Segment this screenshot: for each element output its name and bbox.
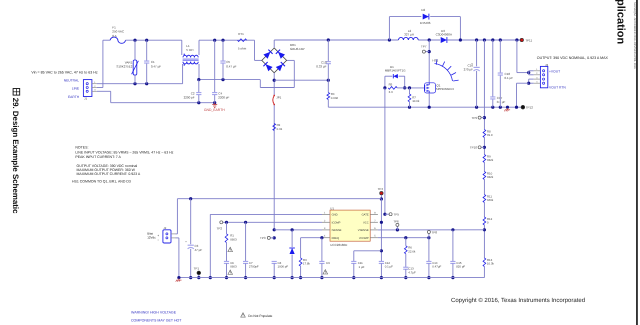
svg-text:R5: R5 [389,82,393,86]
earth line [111,102,215,104]
DNP marker for C9 [323,270,328,274]
svg-text:47 µF: 47 µF [195,248,203,252]
svg-text:10.0k: 10.0k [412,99,420,103]
svg-text:0603: 0603 [230,265,237,269]
svg-text:5 ohm: 5 ohm [238,46,247,50]
svg-text:SLUSBQ5A –NOVEMBER 2013–REVISE: SLUSBQ5A –NOVEMBER 2013–REVISED APRIL 20… [633,2,636,69]
wire bridge top corner to DC+ rail [273,40,275,48]
wire J2 plus to bias feed [176,233,178,235]
resistor R10 [483,172,486,180]
svg-text:TP7: TP7 [421,45,427,49]
svg-text:LINE: LINE [72,87,80,91]
svg-text:0.47 µF: 0.47 µF [151,64,161,68]
svg-text:29. Design Example Schematic: 29. Design Example Schematic [11,98,20,214]
shunt resistor R4 [327,93,330,100]
svg-text:MAXIMUM OUTPUT CURRENT: 0.923: MAXIMUM OUTPUT CURRENT: 0.923 A [77,172,141,176]
svg-text:NEUTRAL: NEUTRAL [64,78,80,82]
wire DC- to R4 [274,79,328,81]
svg-text:C3D04060A: C3D04060A [436,32,452,36]
bias feed wire [177,198,381,200]
rotated page header tiny text [633,2,636,69]
test point TP9 [483,116,486,119]
svg-text:4.7µF: 4.7µF [408,270,416,274]
red GND_EARTH symbol and label [214,103,216,105]
boost diode bypass D2 [388,38,391,41]
svg-text:ISENSE: ISENSE [332,229,342,232]
wire neutral jog to bridge right corner [259,80,261,88]
resistor R12 [483,217,486,225]
svg-text:S10K275E2: S10K275E2 [116,65,132,69]
test point TP4 on VCC node [380,192,383,195]
svg-text:PEAK INPUT CURRENT: 7 A: PEAK INPUT CURRENT: 7 A [75,155,121,159]
capacitor C18 [499,38,502,41]
gate clamp diode D1 [384,76,386,88]
DC+ rail [274,39,398,41]
svg-text:2200 pF: 2200 pF [218,96,229,100]
MOSFET Q1 [424,83,435,93]
svg-text:TP5: TP5 [394,213,400,217]
wire ICOMP pin2 [223,221,322,223]
svg-text:HS1 COMMON TO Q1, BR1, AND D3: HS1 COMMON TO Q1, BR1, AND D3 [72,180,131,184]
svg-text:plication: plication [615,0,627,45]
capacitor C6 DNP [224,260,229,262]
svg-text:GATE: GATE [362,214,369,217]
bridge diode bottom-right [276,62,285,71]
svg-text:U1: U1 [330,206,334,210]
test point TP12 [521,105,525,109]
bridge diode top-right [276,50,285,59]
svg-text:J3: J3 [545,63,548,67]
svg-text:332k: 332k [487,158,494,162]
wire neutral rail from J1 pin1 [97,83,183,85]
jumper JP1 [273,105,275,230]
svg-text:J2: J2 [163,226,166,230]
svg-text:+VOUT: +VOUT [549,70,560,74]
svg-text:5 mH: 5 mH [186,48,193,52]
common-mode choke L1 [181,40,183,55]
wire FREQ pin4 and resistor R3 [301,237,322,239]
svg-text:VCOMP: VCOMP [359,237,369,240]
svg-text:HS1: HS1 [432,59,438,63]
capacitor C15 on VSENSE [451,228,454,231]
resistor R9 [483,155,486,163]
output capacitor C16 [475,38,478,41]
svg-text:WARNING! HIGH VOLTAGE: WARNING! HIGH VOLTAGE [131,310,177,314]
svg-text:UCC28180D: UCC28180D [330,243,348,247]
svg-text:1000 pF: 1000 pF [278,265,289,269]
svg-text:TP4: TP4 [378,187,384,191]
svg-text:VSENSE: VSENSE [358,229,369,232]
svg-text:TP3: TP3 [260,236,266,240]
svg-text:17.8k: 17.8k [303,262,311,266]
svg-text:0.1 µF: 0.1 µF [497,100,506,104]
svg-text:8 A: 8 A [112,34,116,38]
wire to output connector + [515,38,518,41]
svg-text:0.47 µF: 0.47 µF [226,64,236,68]
svg-text:GBU6J-BP: GBU6J-BP [290,47,305,51]
svg-text:RT1: RT1 [238,32,244,36]
svg-text:0.31: 0.31 [277,127,283,131]
capacitor C2 [197,78,200,81]
capacitor C12 on VCC [379,260,384,262]
rotated section heading fragment: plication [615,0,627,45]
heatsink HS1 [435,64,453,82]
svg-text:0.1 µF: 0.1 µF [385,265,393,269]
svg-text:2200 pF: 2200 pF [184,96,195,100]
svg-text:3.3: 3.3 [389,90,393,94]
capacitor C5 [221,39,224,42]
svg-text:TP2: TP2 [216,226,222,230]
wire GND pin1 left and down to rail [210,213,322,215]
svg-text:TP6: TP6 [393,219,399,223]
svg-text:−: − [157,238,159,242]
svg-text:Do Not Populate: Do Not Populate [248,314,272,318]
test point TP5 on GATE [383,213,386,216]
svg-text:49.9: 49.9 [487,133,493,137]
capacitor C17 [491,38,494,41]
svg-text:LINE INPUT VOLTAGE: 85 VRMS –: LINE INPUT VOLTAGE: 85 VRMS – 265 VRMS, … [75,150,173,154]
svg-text:10.3k: 10.3k [487,262,495,266]
svg-text:EARTH: EARTH [68,95,80,99]
capacitor C10 [327,38,330,41]
test point TP8 and capacitor C14 on VCOMP [427,236,430,239]
svg-text:820 pF: 820 pF [456,265,465,269]
rotated figure caption [11,89,20,215]
test point TP2 [220,221,223,224]
source return rail [328,106,523,108]
svg-text:J1: J1 [84,96,87,100]
red chassis ground symbol [178,278,180,280]
wire neutral line after choke [199,79,260,81]
wire VCOMP pin5 [378,237,429,239]
DNP marker for C6 [228,270,233,274]
connector J3 [540,66,547,87]
test point TP3 [273,236,276,239]
svg-text:332k: 332k [487,175,494,179]
svg-text:OUTPUT: 390 VDC NOMINAL, 0.923: OUTPUT: 390 VDC NOMINAL, 0.923 A MAX [537,56,609,60]
svg-text:TP10: TP10 [470,146,478,150]
wire top line rail fuse to choke [126,39,182,41]
wire output connector return [529,78,534,80]
capacitor C7 [244,221,247,224]
svg-text:ICOMP: ICOMP [332,221,341,224]
wire bridge bottom corner to DC- node [273,73,275,96]
resistor R1 DNP branch [225,221,228,224]
wire VSENSE pin6 to divider [378,229,485,231]
capacitor C4 [213,39,216,42]
clamp diode D4 on ISENSE [291,228,294,231]
wire ISENSE pin3 [273,228,276,231]
svg-text:0.33 µF: 0.33 µF [316,64,326,68]
resistor R2 [273,124,276,131]
gate resistor R5 [383,86,386,89]
red chassis symbol at output return [506,106,509,109]
do not populate legend [241,313,246,317]
wire earth from pin3 [97,90,111,92]
capacitor C8 [272,260,277,262]
svg-text:VCC: VCC [363,221,369,224]
resistor R6 and capacitor C13 on VCOMP [404,236,407,239]
wire line rail after choke [199,39,255,41]
svg-text:TP11: TP11 [525,39,532,43]
svg-text:GND_EARTH: GND_EARTH [204,108,225,112]
gate drive vertical to pin 8 [384,88,386,214]
fuse F1 [110,37,125,43]
test point TP7 [428,38,431,41]
svg-text:JP1: JP1 [276,95,281,99]
svg-text:TP1: TP1 [193,266,199,270]
svg-text:Vin = 85 VAC to 265 VAC, 47 Hz: Vin = 85 VAC to 265 VAC, 47 Hz to 63 Hz [31,70,97,74]
svg-text:FREQ: FREQ [332,237,339,240]
test point TP10 [483,146,486,149]
divider feed from DC+ rail [483,38,486,41]
svg-text:TP9: TP9 [471,116,477,120]
resistor R13 [483,258,486,267]
svg-text:COMPONENTS MAY GET HOT: COMPONENTS MAY GET HOT [131,319,182,323]
test point TP1 [197,271,201,275]
capacitor C1 [145,39,148,42]
wire line rail into bridge [254,40,256,60]
capacitor C11 on VCC [354,250,382,252]
page right rule [636,0,638,325]
svg-text:270 µF: 270 µF [464,68,474,72]
VCC vertical [380,199,382,261]
svg-text:0.1 µF: 0.1 µF [505,76,514,80]
svg-text:2700pF: 2700pF [249,265,259,269]
svg-text:NOTES:: NOTES: [75,146,88,150]
resistor R11 [483,195,486,203]
resistor R8 [483,130,486,138]
bridge rectifier BR1 [262,48,287,73]
svg-text:SPP20N60C3: SPP20N60C3 [436,87,454,91]
svg-text:0.032: 0.032 [331,96,339,100]
svg-text:VOUT RTN: VOUT RTN [549,85,566,89]
svg-text:1 µF: 1 µF [359,265,365,269]
svg-text:0.47µF: 0.47µF [432,265,441,269]
ground rail bottom [179,277,485,279]
svg-text:327 µH: 327 µH [404,32,414,36]
wire J2 minus to ground rail [176,237,179,239]
svg-text:22.6k: 22.6k [408,249,416,253]
svg-text:GND: GND [332,214,338,217]
svg-text:TP12: TP12 [526,106,534,110]
svg-text:340k: 340k [487,198,494,202]
bridge diode bottom-left [263,62,272,71]
svg-text:MBR140SFT1G: MBR140SFT1G [385,69,406,73]
op-amp ic U1 UCC28180D [330,210,370,241]
capacitor C9 DNP on FREQ [320,236,323,239]
wire line pin2 to fuse riser [97,87,103,89]
varistor VAR1 [133,39,136,42]
svg-text:C9: C9 [326,261,330,265]
DNP marker for R1 [228,247,233,251]
boost diode D3 [441,37,447,43]
svg-text:1N5406: 1N5406 [420,21,431,25]
svg-text:D2: D2 [421,8,425,12]
test point TP11 [520,38,523,41]
gate pulldown R7 [408,86,411,89]
capacitor C3 bias bulk [189,197,192,200]
svg-text:12Vdc: 12Vdc [147,235,156,239]
connector J1 [83,80,92,97]
bridge diode top-left [263,50,272,59]
svg-text:TP8: TP8 [432,230,438,234]
svg-text:Copyright © 2016, Texas Instru: Copyright © 2016, Texas Instruments Inco… [451,297,585,304]
bias connector J2 [163,230,171,243]
thermistor RT1 [238,39,247,42]
boost inductor L2 [399,37,404,40]
svg-text:0603: 0603 [230,237,237,241]
